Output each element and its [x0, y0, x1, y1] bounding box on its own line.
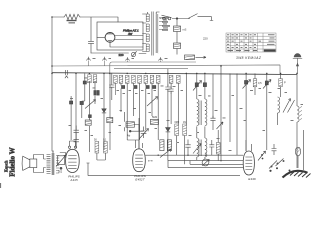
resistor R5 [119, 75, 123, 83]
labels by R23 R24 [175, 121, 187, 124]
wire: left rail [51, 17, 53, 151]
wire: column 5 [109, 73, 111, 118]
wire col 71 [70, 96, 72, 140]
grid-cap glyph c [126, 57, 130, 60]
svg-text:Kapsch: Kapsch [5, 161, 9, 172]
arrow to chassis [196, 56, 207, 58]
wire joining tube2 area [127, 140, 139, 149]
resistor R7 [132, 75, 136, 83]
box: power-supply enclosure [97, 22, 143, 50]
table cell entries [227, 34, 276, 51]
trimmer arrow C24 [193, 144, 201, 154]
capacitor C14 block pair [245, 81, 248, 85]
wire: rectifier to transformer [97, 36, 143, 48]
wire: tube3 top leads [246, 140, 252, 151]
tube V1 top pins [68, 146, 70, 148]
IFT1 core [200, 101, 202, 126]
wire below R4 [94, 81, 96, 104]
wire below R3 [88, 81, 90, 152]
capacitor C23 plates [185, 140, 190, 156]
IFT1 primary coil [197, 99, 199, 126]
capacitor C13 block [203, 83, 206, 87]
resistor R24 [183, 124, 187, 136]
potentiometer arrow P2 [147, 97, 158, 107]
tube V2 envelope [133, 149, 146, 172]
capacitor C1 block [174, 43, 181, 49]
wire: column 4 [103, 73, 105, 150]
trimmer arrow IFT1 [217, 122, 224, 129]
capacitor C15 block with arrow [265, 81, 268, 85]
svg-text:a–m: a–m [148, 160, 153, 163]
speaker voice coil box [30, 159, 37, 168]
capacitor C11 plates [169, 87, 174, 94]
antenna symbol (filled dome) [294, 53, 301, 57]
wire OT to tube1 [60, 153, 66, 156]
svg-text:220: 220 [203, 37, 208, 41]
wave switch contacts [258, 151, 266, 161]
switch S2a lever [162, 15, 172, 18]
resistor R8 [138, 75, 142, 83]
capacitor C9 block [134, 86, 137, 89]
left edge artifact [0, 183, 2, 188]
capacitor C26 plates [210, 116, 215, 123]
resistor R15 [253, 79, 257, 87]
junction dot [60, 167, 62, 169]
resistor R5a [114, 75, 118, 83]
bus: HT rail upper [52, 65, 280, 74]
potentiometer arrow on detector line [160, 149, 171, 158]
capacitor C20 plates [74, 137, 79, 148]
table: voltage chart grid [226, 33, 276, 52]
switch junction blobs [262, 158, 291, 172]
antenna coil L2 [297, 106, 299, 122]
resistor R21 (horizontal) [126, 122, 134, 127]
IFT1 secondary coil [205, 99, 207, 126]
switch S2a contacts [163, 17, 166, 20]
svg-text:mS: mS [183, 27, 187, 31]
tap voltage labels [162, 17, 170, 30]
wire: IFT1 leads [197, 73, 205, 99]
value label 380 ohm [67, 20, 77, 24]
svg-text:1M: 1M [183, 121, 186, 124]
tube V2 electrodes [135, 155, 143, 168]
wires below R19 R20 [97, 153, 106, 160]
grid-cap glyph d [159, 57, 163, 60]
output transformer secondary [56, 156, 59, 174]
resistor R3 [88, 75, 92, 83]
capacitor C17 block [70, 101, 73, 104]
capacitor C25 plates [209, 140, 214, 155]
speaker magnet yoke [34, 155, 46, 173]
wire: nested bottom lines [168, 161, 243, 168]
wire rail into OT [52, 151, 54, 153]
wires below resistor row [121, 83, 158, 140]
wire: mid connectors [125, 112, 144, 131]
wire: detector line [145, 154, 243, 156]
capacitor C6 (block) [80, 101, 83, 104]
connector Ps pickup sockets [185, 55, 195, 60]
wire IFT2 leads [197, 126, 205, 160]
svg-text:502: 502 [58, 171, 63, 174]
ground chassis swoosh [283, 171, 308, 178]
rectifier tube V4 envelope [105, 33, 115, 43]
svg-text:E 446: E 446 [248, 177, 256, 181]
oscillator coil L1 [278, 97, 280, 113]
variable resistor R25 with arrow [58, 156, 65, 165]
coil L4 small [167, 140, 171, 151]
wire: HT distribution top right [160, 17, 214, 21]
resistor R1 mains dropper (zigzag) [64, 14, 80, 19]
wire: middle long column [213, 66, 221, 161]
wire: tube2 top leads [136, 118, 143, 149]
resistor R14 [216, 143, 220, 155]
junction dot [129, 130, 131, 132]
svg-text:0,5: 0,5 [258, 81, 262, 85]
resistor R10 [150, 75, 154, 83]
wire right of IFT [217, 130, 219, 161]
svg-text:Fidelio W: Fidelio W [9, 147, 17, 176]
antenna lead with arrow [297, 58, 299, 73]
bus: chassis rail lower [52, 73, 297, 75]
wire: HT lead top [148, 12, 160, 14]
tube V1 electrodes [68, 156, 76, 169]
resistor R20 [104, 142, 108, 154]
resistor R17 (horizontal) [85, 120, 91, 125]
resistor R11 [156, 75, 160, 83]
glyph stubs [89, 61, 161, 67]
svg-text:50: 50 [94, 138, 97, 141]
wires below R23 R24 [177, 136, 185, 165]
resistor R13 [177, 75, 181, 83]
potentiometer arrow P1 [85, 100, 96, 109]
capacitor C19 plates [74, 126, 79, 138]
diode D2 triangle [166, 128, 171, 132]
transformer T1 primary winding sections [142, 14, 149, 52]
wire below L1 [277, 113, 279, 125]
value label speckles [69, 58, 304, 151]
labels by R19 R20 [94, 138, 107, 141]
junction dot switch [176, 18, 178, 20]
wire lamp leads [298, 130, 304, 170]
resistor R9 [144, 75, 148, 83]
IFT2 primary coil [197, 138, 199, 157]
svg-text:E 452 T: E 452 T [135, 178, 146, 182]
capacitor C10 block [146, 86, 149, 89]
capacitor C5 (block) [83, 81, 86, 84]
transformer T1 core [152, 12, 153, 56]
tube V3 electrodes [245, 157, 252, 170]
coil L3 small [160, 140, 164, 151]
junction dots bottom [157, 154, 221, 161]
wire right column [296, 73, 298, 168]
diode D1 (triangle) [102, 109, 106, 113]
wire: dropper column 1 [75, 73, 77, 148]
dial lamp [295, 147, 300, 156]
capacitor C12 block with AVC arrow [195, 83, 198, 87]
svg-text:P: P [284, 81, 286, 85]
junction dots [51, 16, 298, 74]
resistor R19 [95, 142, 99, 154]
capacitor C7 plates [109, 83, 114, 90]
grid-cap glyph a [87, 57, 91, 61]
resistor R16 [279, 79, 283, 87]
wire columns right-mid [171, 73, 186, 124]
resistor R2 ballast [174, 26, 181, 32]
resistor R12 [169, 75, 173, 83]
capacitor C22 plates [165, 85, 170, 92]
wire col 280 [280, 73, 282, 97]
speaker cone [22, 156, 30, 170]
resistor R18 (horizontal) [107, 118, 113, 123]
switch dots [261, 154, 285, 168]
fuse Si on chassis rail [65, 70, 68, 78]
trimmer arrows [283, 99, 295, 113]
wire: long bottom return [87, 163, 241, 176]
capacitor C2 primary filter [88, 41, 93, 43]
resistor R23 [175, 124, 179, 136]
IFT2 core [200, 140, 202, 157]
capacitor C18 block [89, 115, 92, 118]
transformer T1 secondary winding [156, 14, 159, 53]
rectifier anode pins [107, 33, 113, 43]
capacitor C21 plates with arrow [141, 127, 147, 139]
capacitor C8 block [122, 86, 125, 89]
bus: AVC line [110, 62, 196, 73]
tube V3 envelope [243, 151, 254, 175]
output transformer winding (tick stack) [47, 155, 51, 174]
wire: mains lead in box [91, 52, 146, 55]
svg-text:220: 220 [119, 53, 124, 57]
svg-text:5M2: 5M2 [152, 115, 158, 119]
secondary taps [159, 18, 163, 30]
wire: column 2 [82, 73, 85, 118]
IFT2 secondary coil [205, 138, 207, 157]
wire col 110 lower [109, 123, 111, 150]
resistor R6 [125, 75, 129, 83]
volume pot (circle with arrow) [202, 159, 209, 166]
tube V1 output envelope [66, 149, 80, 172]
wire columns far mid [230, 73, 255, 155]
switch S mains (rotary) [131, 52, 135, 56]
svg-text:A 415: A 415 [69, 178, 78, 182]
tube V2 label [134, 174, 146, 182]
switch S2b lever [188, 14, 198, 19]
capacitor C10b block [153, 86, 156, 89]
svg-text:Ab: Ab [127, 134, 131, 138]
wire: top feed from left rail [52, 17, 118, 53]
resistor R4 [93, 75, 97, 83]
svg-text:0,1: 0,1 [103, 138, 107, 141]
resistor R22 (horizontal small) [151, 119, 159, 124]
L2 core ticks [300, 107, 302, 120]
svg-text:0M2: 0M2 [175, 121, 180, 124]
tube V1 label [68, 174, 80, 182]
output transformer core [52, 153, 54, 175]
wire: ballast branch [176, 19, 178, 55]
svg-text:3W8 KEMUAZ: 3W8 KEMUAZ [236, 56, 262, 60]
switch levers [269, 159, 284, 169]
grid-cap glyph b [103, 57, 107, 61]
capacitor C16 plates [272, 144, 277, 155]
capacitor C5b block pair [94, 91, 96, 96]
wire col 168 [167, 69, 169, 161]
wire col 265 [266, 73, 268, 150]
bus: grid return line [114, 68, 188, 70]
